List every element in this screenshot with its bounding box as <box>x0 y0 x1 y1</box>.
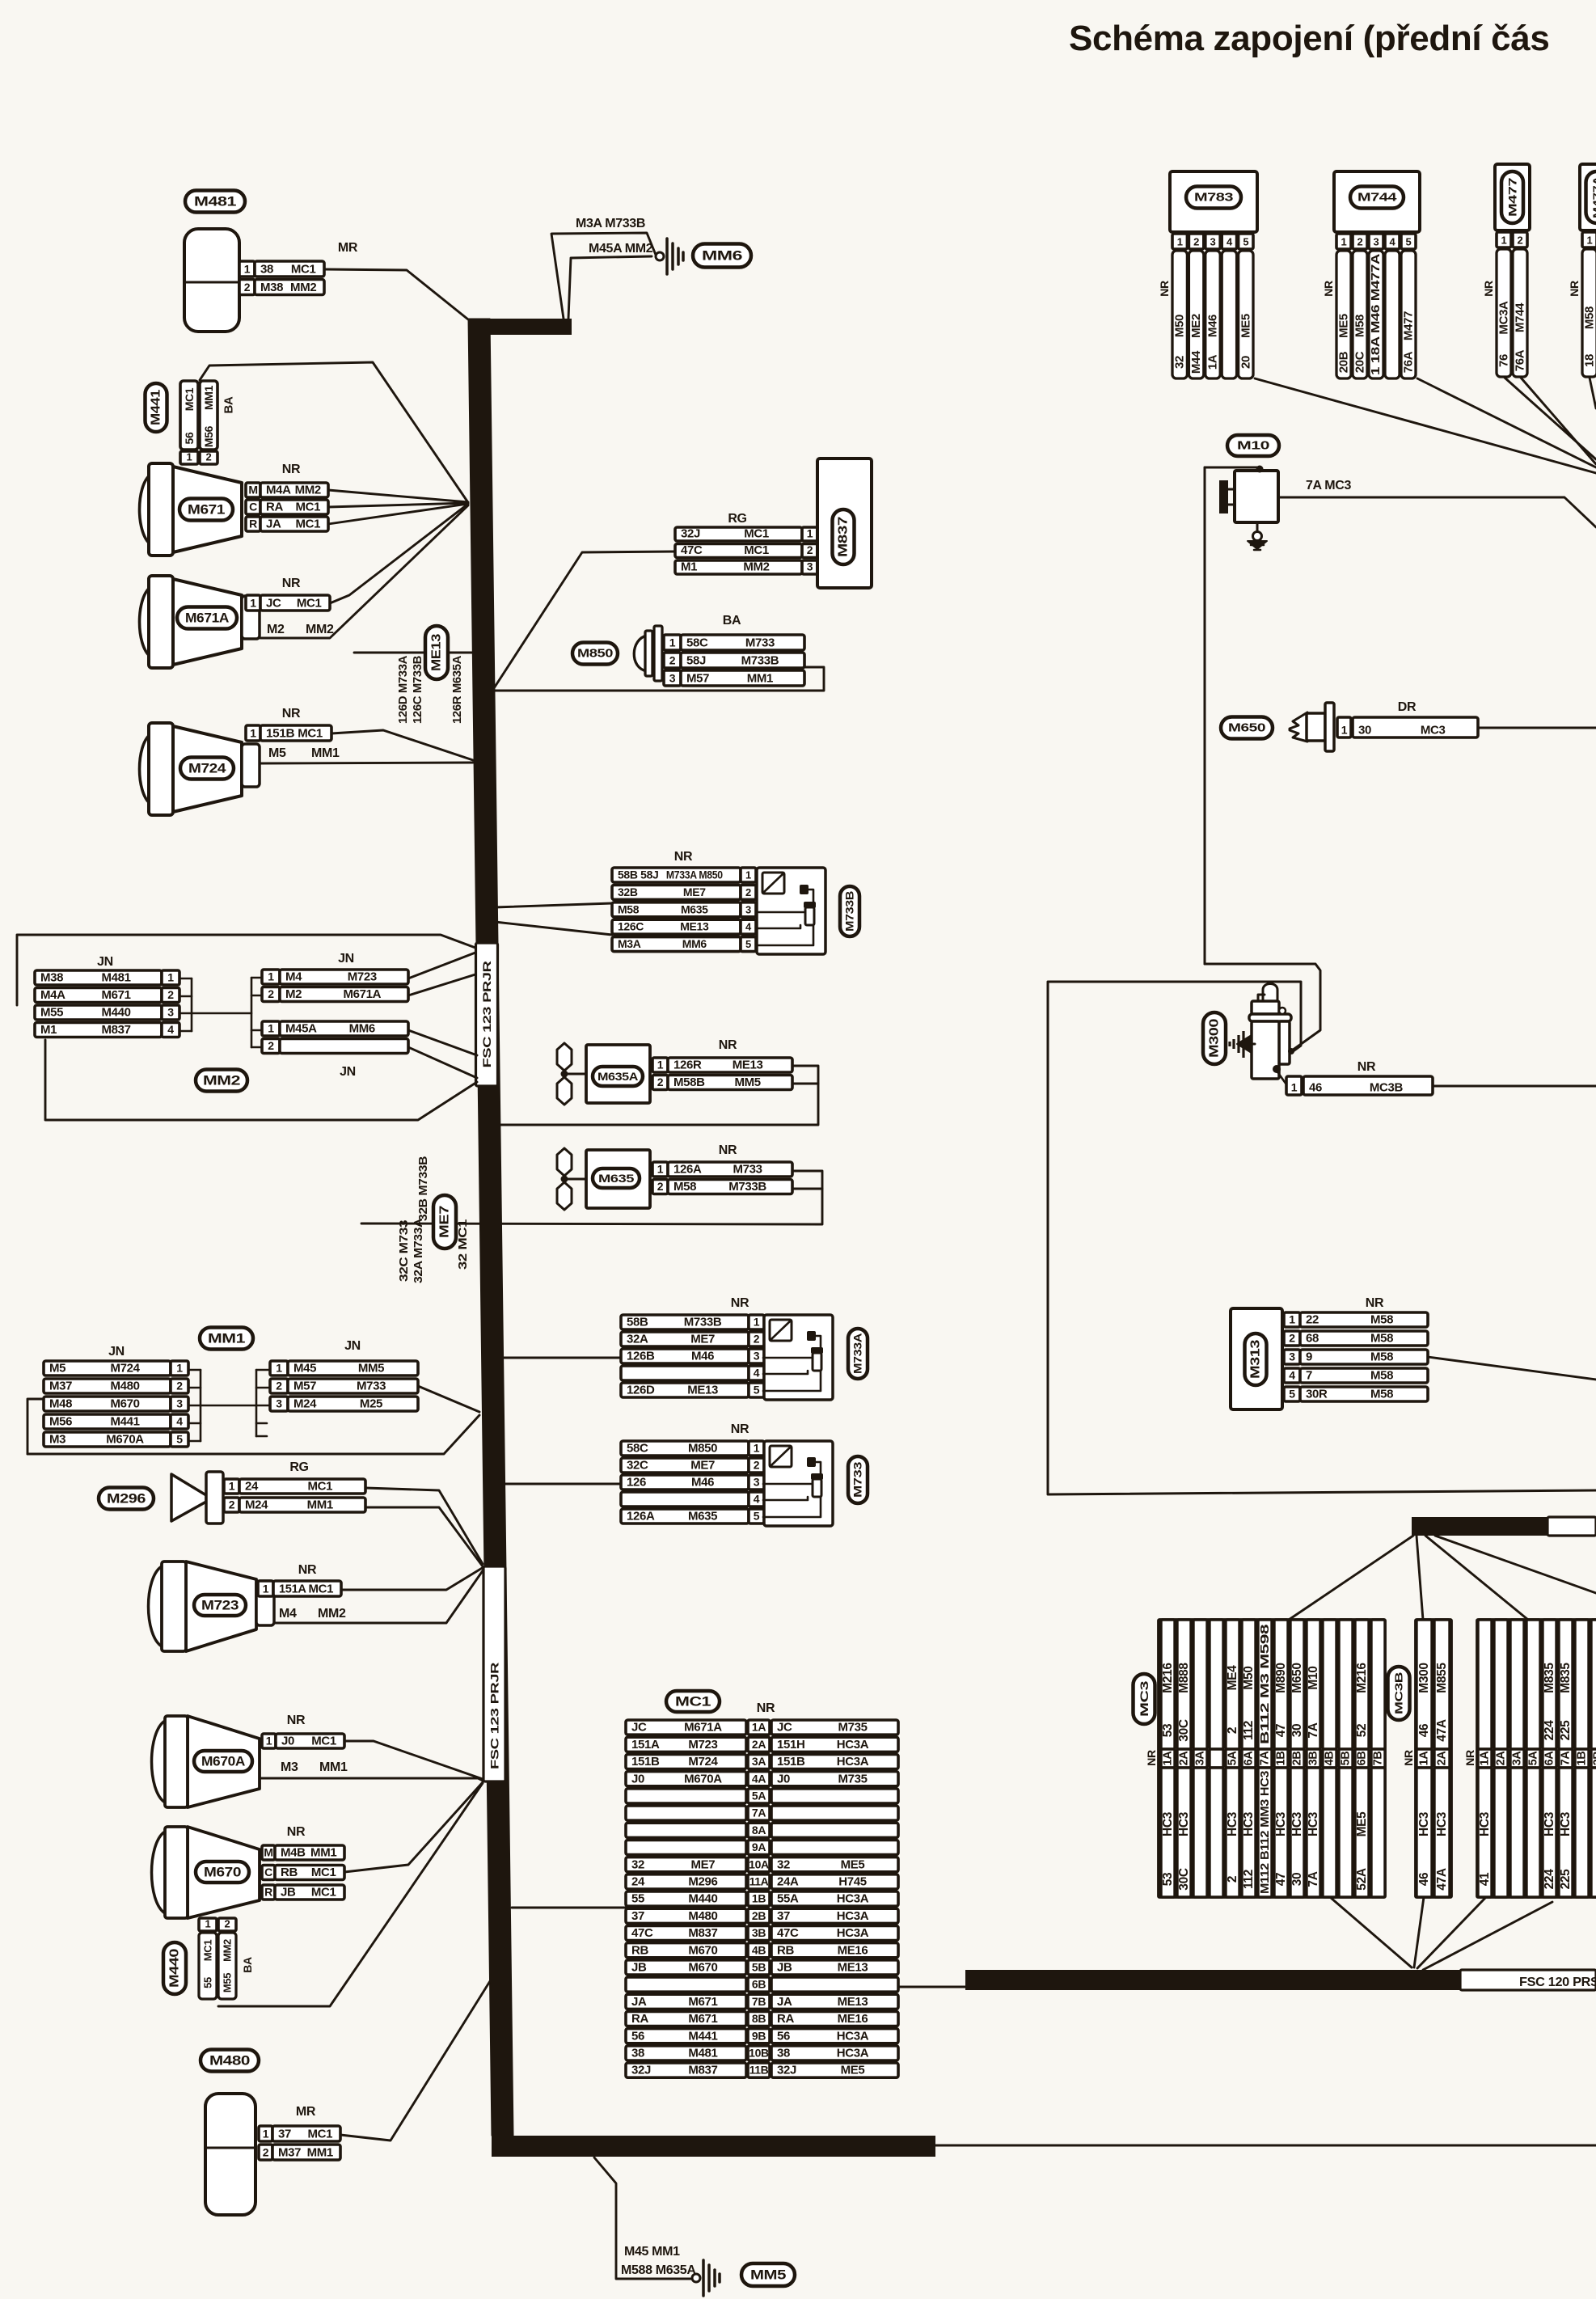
headlamp M671 table NR <box>246 463 328 531</box>
svg-text:HC3A: HC3A <box>837 2029 869 2043</box>
svg-text:46: 46 <box>1417 1723 1431 1737</box>
svg-text:M10: M10 <box>1307 1666 1320 1689</box>
connector MC1 table NR <box>626 1701 898 2077</box>
svg-text:M440: M440 <box>101 1006 130 1020</box>
wire M635A loop to bus <box>492 1066 818 1125</box>
svg-text:3: 3 <box>745 903 751 915</box>
svg-text:M835: M835 <box>1543 1663 1556 1693</box>
svg-text:M2: M2 <box>267 623 285 636</box>
svg-text:3: 3 <box>1210 236 1216 248</box>
svg-text:M837: M837 <box>688 1926 717 1940</box>
fan M635 <box>557 1148 650 1210</box>
svg-text:1A: 1A <box>1479 1751 1492 1766</box>
svg-text:55: 55 <box>631 1892 644 1906</box>
svg-text:M481: M481 <box>688 2047 717 2060</box>
svg-text:M441: M441 <box>150 389 163 425</box>
svg-text:1: 1 <box>187 451 192 463</box>
svg-text:M440: M440 <box>168 1948 182 1988</box>
svg-text:47A: 47A <box>1435 1719 1449 1742</box>
svg-text:11B: 11B <box>749 2064 769 2077</box>
svg-text:4A: 4A <box>752 1772 766 1785</box>
svg-text:4B: 4B <box>752 1943 766 1956</box>
svg-text:NR: NR <box>757 1701 775 1715</box>
svg-text:BA: BA <box>723 614 741 628</box>
svg-text:MM6: MM6 <box>349 1022 375 1036</box>
svg-text:126D: 126D <box>627 1384 655 1397</box>
svg-text:MC1: MC1 <box>311 1735 336 1748</box>
wire trunk to M300 <box>1205 964 1320 1054</box>
svg-text:M: M <box>248 484 257 497</box>
svg-text:M2: M2 <box>285 987 302 1001</box>
connector M850 label <box>572 643 618 665</box>
svg-text:M3: M3 <box>49 1433 65 1447</box>
svg-text:M50: M50 <box>1242 1666 1256 1689</box>
svg-text:47C: 47C <box>631 1926 653 1940</box>
svg-text:JN: JN <box>340 1065 356 1079</box>
svg-text:M57: M57 <box>686 672 709 686</box>
svg-text:2: 2 <box>657 1180 664 1193</box>
svg-text:4: 4 <box>1227 236 1233 248</box>
svg-text:30: 30 <box>1358 724 1371 737</box>
wire bus to M733 <box>502 1483 621 1485</box>
svg-text:1: 1 <box>176 1362 183 1375</box>
svg-text:MC3: MC3 <box>1138 1680 1151 1717</box>
svg-text:2: 2 <box>669 654 676 667</box>
svg-text:M58: M58 <box>618 902 640 915</box>
svg-text:B112 M3 M598: B112 M3 M598 <box>1258 1625 1272 1744</box>
relay M733A label <box>848 1329 868 1379</box>
svg-text:4: 4 <box>176 1415 183 1428</box>
svg-text:M57: M57 <box>293 1380 316 1393</box>
svg-text:RA: RA <box>266 501 283 514</box>
svg-text:1: 1 <box>244 263 251 276</box>
svg-text:126C: 126C <box>618 920 644 933</box>
svg-text:8B: 8B <box>752 2012 766 2025</box>
svg-text:126R: 126R <box>673 1059 702 1072</box>
junction MM2 label <box>196 1070 247 1092</box>
wire M670A M3 to bus <box>260 1778 483 1781</box>
svg-text:58B 58J: 58B 58J <box>618 868 658 881</box>
svg-text:20: 20 <box>1239 356 1252 369</box>
svg-text:3: 3 <box>669 672 676 685</box>
svg-text:1: 1 <box>657 1163 664 1176</box>
svg-text:M671: M671 <box>688 2012 717 2026</box>
svg-text:M45A: M45A <box>285 1022 317 1036</box>
svg-text:1: 1 <box>229 1480 235 1493</box>
svg-text:MC1: MC1 <box>202 1940 214 1962</box>
wire M635 loop to bus (ME7 wire) <box>361 1171 822 1224</box>
wires bus to M733B <box>495 903 612 935</box>
svg-text:M480: M480 <box>688 1909 717 1923</box>
svg-text:2: 2 <box>176 1380 183 1393</box>
svg-text:56: 56 <box>777 2029 790 2043</box>
svg-text:JN: JN <box>97 955 113 969</box>
wire label 126R M635A <box>451 655 464 724</box>
svg-text:1: 1 <box>250 597 256 610</box>
svg-text:MM5: MM5 <box>750 2267 786 2283</box>
buzzer M10 <box>1219 471 1278 522</box>
svg-text:M735: M735 <box>838 1721 867 1735</box>
svg-text:NR: NR <box>287 1714 306 1727</box>
svg-text:6B: 6B <box>1356 1752 1369 1766</box>
svg-text:MM2: MM2 <box>295 484 321 497</box>
svg-text:RA: RA <box>777 2012 794 2026</box>
connector NR (third tall table, clipped) <box>1463 1620 1596 1897</box>
svg-text:MC1: MC1 <box>744 527 769 541</box>
svg-text:M723: M723 <box>201 1598 239 1613</box>
svg-text:NR: NR <box>282 707 301 721</box>
svg-text:47: 47 <box>1274 1724 1288 1738</box>
svg-text:30: 30 <box>1290 1724 1304 1738</box>
svg-text:M635: M635 <box>681 902 708 915</box>
svg-text:11A: 11A <box>749 1875 769 1888</box>
wires M671 to bus <box>328 490 468 524</box>
svg-text:JN: JN <box>108 1345 125 1359</box>
svg-text:53: 53 <box>1161 1872 1175 1886</box>
svg-text:7A: 7A <box>752 1807 766 1819</box>
switch M313 body <box>1231 1308 1282 1409</box>
svg-text:1: 1 <box>250 727 256 740</box>
wire labels 32C M733 / 32A M733A <box>398 1218 425 1283</box>
wire M723 M4 to bus <box>274 1570 483 1623</box>
connector M440 label <box>163 1942 186 1994</box>
fan M635A <box>557 1043 650 1105</box>
svg-text:M650: M650 <box>1290 1663 1304 1693</box>
svg-text:M46: M46 <box>1206 315 1220 337</box>
svg-text:52A: 52A <box>1355 1868 1369 1891</box>
svg-text:NR: NR <box>719 1143 737 1157</box>
svg-text:M216: M216 <box>1161 1663 1175 1693</box>
wires MM2 tables to bus <box>408 953 477 1078</box>
svg-text:1: 1 <box>1341 236 1347 248</box>
svg-text:76: 76 <box>1497 354 1511 367</box>
svg-text:M58: M58 <box>1370 1350 1393 1364</box>
svg-text:1: 1 <box>276 1362 282 1375</box>
svg-text:1 18A M46 M477A: 1 18A M46 M477A <box>1370 253 1383 375</box>
bulb M850 <box>634 626 662 681</box>
svg-text:MC1: MC1 <box>295 501 320 514</box>
junction MM1 left table JN <box>44 1345 188 1447</box>
svg-text:M670A: M670A <box>201 1754 245 1769</box>
svg-text:RG: RG <box>289 1460 308 1474</box>
svg-text:2: 2 <box>276 1380 282 1393</box>
wire to ground MM6 (M3A M733B / M45A MM2) <box>551 217 656 319</box>
svg-text:NR: NR <box>298 1563 317 1577</box>
svg-text:2: 2 <box>1518 235 1523 247</box>
connector M481 table MR <box>239 241 358 295</box>
svg-text:6A: 6A <box>1543 1751 1556 1766</box>
svg-text:M5: M5 <box>268 746 286 760</box>
horn M296 label <box>99 1488 154 1510</box>
wire labels 126D M733A / 126C M733B <box>397 655 424 724</box>
svg-text:9: 9 <box>1306 1350 1312 1364</box>
svg-text:JN: JN <box>344 1339 361 1353</box>
svg-text:MC1: MC1 <box>744 543 769 557</box>
wire M744 to edge <box>1417 378 1596 467</box>
svg-text:1: 1 <box>1341 724 1348 737</box>
svg-text:2A: 2A <box>752 1738 766 1751</box>
svg-text:ME13: ME13 <box>733 1059 763 1072</box>
svg-text:M313: M313 <box>1249 1339 1263 1379</box>
svg-text:M24: M24 <box>245 1498 268 1512</box>
svg-text:112: 112 <box>1242 1721 1256 1740</box>
svg-text:1B: 1B <box>752 1892 766 1905</box>
svg-text:3B: 3B <box>1307 1752 1320 1766</box>
svg-text:224: 224 <box>1543 1720 1556 1741</box>
svg-text:2: 2 <box>268 1039 274 1052</box>
svg-text:M635: M635 <box>688 1510 717 1524</box>
svg-text:NR: NR <box>1322 281 1335 297</box>
svg-text:M296: M296 <box>107 1491 146 1507</box>
svg-text:M733: M733 <box>745 636 775 650</box>
relay M733A table NR <box>621 1296 764 1397</box>
svg-text:M58: M58 <box>1353 315 1367 337</box>
svg-text:MC1: MC1 <box>183 387 196 411</box>
svg-text:NR: NR <box>1482 281 1495 297</box>
svg-text:M671: M671 <box>688 1995 717 2009</box>
svg-text:M50: M50 <box>1173 315 1187 337</box>
svg-text:32J: 32J <box>681 527 700 541</box>
svg-text:MM2: MM2 <box>290 281 316 294</box>
svg-text:1: 1 <box>1177 236 1183 248</box>
junction MM2 right bracket <box>251 978 262 1047</box>
wire label 32 MC1 <box>457 1219 470 1270</box>
svg-text:M37: M37 <box>49 1380 72 1393</box>
connector M744 <box>1322 171 1420 378</box>
svg-text:24: 24 <box>631 1875 645 1889</box>
svg-text:M56: M56 <box>49 1415 72 1429</box>
svg-text:MC1: MC1 <box>291 263 316 277</box>
svg-text:M4: M4 <box>279 1607 297 1621</box>
connector MC1 label <box>666 1691 720 1712</box>
svg-text:MM5: MM5 <box>358 1362 384 1376</box>
svg-text:MR: MR <box>296 2105 316 2119</box>
svg-text:J0: J0 <box>631 1772 644 1786</box>
svg-text:MM5: MM5 <box>734 1076 760 1089</box>
wire loop MM2 bottom <box>45 1040 477 1120</box>
wire M670 to bus <box>344 1782 483 1872</box>
svg-text:M58: M58 <box>1370 1332 1393 1346</box>
svg-text:7A: 7A <box>1307 1871 1320 1887</box>
svg-text:3: 3 <box>176 1397 183 1410</box>
headlamp M670A table NR <box>262 1714 344 1748</box>
svg-text:5B: 5B <box>752 1961 766 1974</box>
svg-text:M481: M481 <box>194 194 236 209</box>
svg-text:JC: JC <box>266 597 281 611</box>
svg-text:JB: JB <box>777 1961 792 1975</box>
svg-text:M112 B112 MM3 HC3: M112 B112 MM3 HC3 <box>1258 1771 1272 1894</box>
svg-text:NR: NR <box>1357 1060 1376 1074</box>
svg-text:J0: J0 <box>281 1735 294 1748</box>
svg-text:20B: 20B <box>1337 351 1351 373</box>
junction MM2 left bracket <box>179 978 251 1031</box>
svg-text:FSC 120 PRSC: FSC 120 PRSC <box>1519 1976 1596 1989</box>
svg-text:MC3B: MC3B <box>1370 1081 1404 1095</box>
svg-text:225: 225 <box>1559 1869 1573 1890</box>
svg-text:5A: 5A <box>1227 1751 1239 1766</box>
svg-text:MM1: MM1 <box>747 672 773 686</box>
svg-text:2: 2 <box>229 1498 235 1511</box>
svg-text:112: 112 <box>1242 1870 1256 1889</box>
fan M635A table NR <box>652 1038 792 1090</box>
svg-text:MM2: MM2 <box>743 560 769 574</box>
title text <box>1069 19 1550 58</box>
svg-text:4: 4 <box>754 1493 760 1506</box>
svg-text:46: 46 <box>1309 1081 1322 1095</box>
svg-text:53: 53 <box>1161 1723 1175 1737</box>
bus bar (upper right) <box>1412 1517 1596 1536</box>
svg-text:58J: 58J <box>686 654 706 668</box>
svg-text:M477A: M477A <box>1591 175 1596 218</box>
svg-text:MM2: MM2 <box>306 623 334 636</box>
svg-text:JA: JA <box>777 1995 792 2009</box>
wires bar to tables <box>1289 1536 1596 1620</box>
svg-text:M55: M55 <box>222 1973 234 1993</box>
svg-text:M481: M481 <box>101 971 130 985</box>
svg-text:M850: M850 <box>688 1442 717 1456</box>
svg-text:2: 2 <box>268 987 274 1000</box>
svg-text:47A: 47A <box>1435 1868 1449 1891</box>
svg-text:FSC 123 PRJR: FSC 123 PRJR <box>480 961 493 1067</box>
svg-text:MC1: MC1 <box>307 2128 332 2141</box>
svg-text:MM1: MM1 <box>307 2146 333 2160</box>
svg-text:1A: 1A <box>1162 1751 1175 1766</box>
svg-text:M216: M216 <box>1355 1663 1369 1693</box>
svg-text:M671: M671 <box>101 988 130 1002</box>
svg-text:HC3: HC3 <box>1242 1811 1256 1836</box>
svg-text:2: 2 <box>206 451 212 463</box>
svg-text:M300: M300 <box>1417 1663 1431 1693</box>
svg-text:3: 3 <box>1374 236 1379 248</box>
svg-text:32: 32 <box>1173 356 1187 369</box>
svg-text:M635A: M635A <box>597 1070 638 1083</box>
svg-text:M837: M837 <box>688 2064 717 2077</box>
connector M480 label <box>201 2050 259 2072</box>
svg-text:M733A M850: M733A M850 <box>666 868 723 881</box>
wire M300 to edge <box>1433 1085 1596 1088</box>
wire M724 M5 to bus <box>260 763 473 763</box>
svg-text:2: 2 <box>167 988 174 1001</box>
svg-text:MC1: MC1 <box>311 1866 336 1879</box>
svg-text:M4: M4 <box>285 970 302 984</box>
bus FSC 120 (lower right bar) <box>965 1970 1596 1990</box>
wire M650 to edge <box>1478 727 1596 729</box>
svg-text:225: 225 <box>1559 1720 1573 1741</box>
svg-text:HC3: HC3 <box>1543 1811 1556 1836</box>
svg-text:MC1: MC1 <box>311 1886 336 1900</box>
svg-text:3: 3 <box>754 1476 760 1489</box>
svg-text:2: 2 <box>225 1918 230 1930</box>
wire MM1 table to bus <box>418 1386 479 1412</box>
svg-text:24: 24 <box>245 1480 259 1494</box>
svg-text:M670: M670 <box>688 1943 717 1957</box>
svg-text:5B: 5B <box>1340 1752 1353 1766</box>
connector M783 <box>1158 171 1257 378</box>
svg-text:M723: M723 <box>348 970 377 984</box>
svg-text:JB: JB <box>631 1961 647 1975</box>
svg-text:M480: M480 <box>209 2053 250 2069</box>
svg-text:1: 1 <box>268 970 274 983</box>
svg-text:NR: NR <box>1463 1750 1476 1766</box>
svg-text:M670: M670 <box>110 1397 139 1411</box>
svg-text:H745: H745 <box>838 1875 866 1889</box>
svg-text:32C: 32C <box>627 1459 648 1473</box>
svg-text:3A: 3A <box>1511 1751 1524 1766</box>
connector M440 strips BA <box>199 1918 254 2000</box>
svg-text:2: 2 <box>263 2146 269 2159</box>
svg-text:2: 2 <box>807 543 813 556</box>
svg-text:MM1: MM1 <box>208 1331 245 1346</box>
svg-text:24A: 24A <box>777 1875 799 1889</box>
connector M837 body <box>817 459 872 588</box>
svg-text:NR: NR <box>287 1825 306 1839</box>
svg-text:NR: NR <box>731 1296 749 1310</box>
svg-text:NR: NR <box>674 850 693 864</box>
svg-text:MC1: MC1 <box>675 1694 711 1709</box>
svg-text:NR: NR <box>282 463 301 476</box>
svg-text:M480: M480 <box>110 1380 139 1393</box>
svg-text:30R: 30R <box>1306 1388 1328 1401</box>
connector MC3B (tall table) <box>1388 1620 1452 1897</box>
pump M300 label <box>1203 1012 1226 1064</box>
pump M300 <box>1230 984 1291 1080</box>
svg-text:22: 22 <box>1306 1313 1319 1327</box>
wire bus to M733A <box>502 1357 621 1359</box>
svg-text:4: 4 <box>1289 1369 1295 1382</box>
pump M300 table NR <box>1277 1060 1433 1095</box>
connector M441 label <box>146 383 167 432</box>
wire label M3 MM1 <box>281 1760 348 1774</box>
svg-text:1: 1 <box>266 1735 272 1747</box>
svg-text:BA: BA <box>222 396 236 413</box>
svg-text:126: 126 <box>627 1476 646 1490</box>
svg-text:ME7: ME7 <box>691 1857 716 1871</box>
svg-text:4B: 4B <box>1324 1752 1336 1766</box>
svg-text:HC3: HC3 <box>1478 1811 1492 1836</box>
svg-text:HC3A: HC3A <box>837 1909 869 1923</box>
svg-text:18: 18 <box>1583 354 1596 367</box>
svg-text:HC3: HC3 <box>1435 1811 1449 1836</box>
svg-text:1A: 1A <box>1206 354 1220 370</box>
svg-text:32A M733A: 32A M733A <box>412 1218 425 1283</box>
svg-text:1: 1 <box>1291 1081 1298 1094</box>
junction MM1 right bracket <box>256 1370 270 1436</box>
svg-text:ME13: ME13 <box>430 633 444 671</box>
svg-text:M25: M25 <box>360 1397 382 1411</box>
svg-text:ME5: ME5 <box>1337 314 1351 338</box>
svg-text:1: 1 <box>1501 235 1507 247</box>
svg-text:1: 1 <box>167 971 174 984</box>
wire M724 pin1 to bus <box>331 730 473 760</box>
svg-text:32 MC1: 32 MC1 <box>457 1219 470 1270</box>
svg-text:126B: 126B <box>627 1350 655 1363</box>
relay M733B table NR <box>612 850 756 952</box>
svg-text:M671A: M671A <box>185 611 229 626</box>
svg-text:NR: NR <box>1145 1750 1158 1766</box>
svg-text:M635: M635 <box>598 1172 635 1185</box>
svg-text:7: 7 <box>1306 1369 1312 1383</box>
headlamp M671A <box>140 576 260 668</box>
wire M671A M2 to bus <box>260 505 468 638</box>
sensor M650 table DR <box>1337 700 1478 737</box>
svg-text:2: 2 <box>754 1333 760 1346</box>
svg-text:M477: M477 <box>1402 311 1416 340</box>
wire label M5 MM1 <box>268 746 340 760</box>
svg-text:MM1: MM1 <box>307 1498 333 1512</box>
svg-text:ME4: ME4 <box>1226 1665 1239 1691</box>
svg-text:J0: J0 <box>777 1772 790 1786</box>
svg-text:10B: 10B <box>749 2047 769 2060</box>
